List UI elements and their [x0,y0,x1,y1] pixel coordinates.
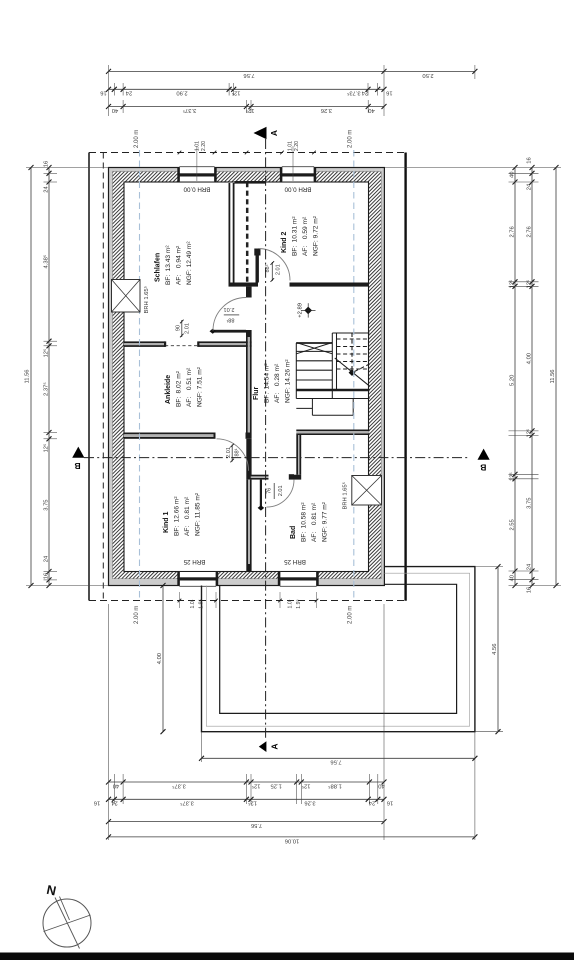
svg-text:11.56: 11.56 [25,369,31,383]
svg-text:2.00 m: 2.00 m [348,130,354,148]
svg-text:AF: 0.81 m²: AF: 0.81 m² [184,496,191,536]
blue roofline 2.00m left [139,150,141,601]
svg-text:16: 16 [387,800,393,806]
svg-text:1.88⁵: 1.88⁵ [328,782,342,789]
svg-text:B: B [480,463,486,473]
right dim chain total 11.56 [555,168,557,586]
door Bad diamond [258,505,265,510]
svg-text:16: 16 [527,587,533,593]
svg-text:3.75: 3.75 [527,498,533,509]
svg-text:12⁵: 12⁵ [43,443,50,452]
svg-text:24: 24 [527,183,533,190]
svg-text:BF: 13.43 m²: BF: 13.43 m² [165,245,172,285]
svg-text:40: 40 [509,172,515,178]
passage jamb marks [164,341,166,347]
svg-text:1.0¹: 1.0¹ [287,599,293,608]
svg-text:1.9⁵: 1.9⁵ [296,599,302,608]
dashed beam line over Flur [246,182,249,283]
svg-text:16: 16 [44,161,50,167]
svg-text:24: 24 [125,90,132,96]
balcony inner outline [220,584,457,713]
svg-text:BRH 1.65⁵: BRH 1.65⁵ [342,481,349,509]
svg-text:4.56: 4.56 [492,644,498,655]
svg-text:2.20: 2.20 [201,141,207,151]
svg-text:16: 16 [527,157,533,163]
svg-text:2.37⁵: 2.37⁵ [43,382,50,396]
wall Flur/Schlafen below door [246,337,248,433]
stair upper flight outline [332,332,369,334]
section marker B left [72,447,84,458]
stair cross over top treads [296,343,332,354]
wall outline inner [124,182,369,572]
lintel over niche [235,181,266,184]
svg-text:12⁵: 12⁵ [301,782,310,789]
section marker B right [478,449,490,460]
door Schlafen diamond [210,329,216,334]
svg-text:24: 24 [43,555,49,562]
roof eaves solid line left [88,153,90,601]
svg-text:12⁵: 12⁵ [247,800,256,807]
stair walkline diamond [349,369,356,376]
stair wellhole lines [331,333,333,399]
svg-text:1.01: 1.01 [194,141,200,151]
svg-text:40: 40 [112,107,118,113]
svg-text:NGF: 11.85 m²: NGF: 11.85 m² [195,492,202,536]
wall Kind1/Bad lower [246,480,248,564]
section line A vertical [265,139,267,741]
svg-text:AF: 0.81 m²: AF: 0.81 m² [311,502,318,542]
stair second line [296,398,369,400]
door Kind2 arc [258,249,290,281]
level mark +2.89 [304,307,312,315]
bottom dim row 1 (balcony 7.56) [202,757,475,759]
svg-text:BRH 25: BRH 25 [284,558,306,565]
stair extra tread [296,407,312,409]
svg-text:3.37⁵: 3.37⁵ [182,107,196,114]
svg-text:2.76: 2.76 [510,226,516,237]
svg-text:1.25: 1.25 [271,782,282,788]
svg-text:Schlafen: Schlafen [155,253,162,282]
window bottom wall Bad [280,572,317,587]
svg-text:7.56: 7.56 [243,72,254,78]
svg-text:2.00 m: 2.00 m [134,606,140,624]
svg-text:12⁵: 12⁵ [508,279,515,288]
svg-text:12⁵: 12⁵ [251,782,260,789]
svg-text:88¹: 88¹ [226,316,234,322]
svg-text:7.56: 7.56 [251,822,262,828]
section marker A top [254,127,267,139]
svg-text:NGF: 14.26 m²: NGF: 14.26 m² [285,359,292,403]
wall Flur/Bad right seg [294,475,301,480]
niche wall double line right face [233,183,235,283]
svg-text:12⁵: 12⁵ [508,472,515,481]
wall Flur/Schlafen below door jamb [246,330,252,337]
top dim row 1 (7.56 / 2.50) [109,70,475,72]
svg-text:BF: 8.02 m²: BF: 8.02 m² [176,370,183,407]
svg-text:BRH 25: BRH 25 [183,558,205,565]
svg-text:10.06: 10.06 [285,837,300,843]
svg-text:16: 16 [386,90,392,96]
door Kind2 leaf [256,249,259,283]
wall Flur/Kind2 horizontal right seg [290,283,369,287]
svg-text:2.01: 2.01 [226,447,232,458]
section line B horizontal [84,457,470,459]
svg-text:Kind 1: Kind 1 [163,512,170,533]
svg-text:A: A [269,130,279,136]
svg-text:BRH 0.00: BRH 0.00 [183,186,210,193]
wall Flur/Kind2 horizontal left seg [229,283,259,287]
chimney left BRH 1.65 [112,280,141,313]
section marker A bottom [259,741,267,752]
svg-text:2.00 m: 2.00 m [134,130,140,148]
svg-text:AF: 0.51 m²: AF: 0.51 m² [186,367,193,407]
door Schlafen arc [213,298,246,331]
wall Schlafen/Ankleide left part [124,341,165,343]
svg-text:16: 16 [94,800,100,806]
svg-text:5.20: 5.20 [510,375,516,386]
svg-text:90: 90 [175,325,181,331]
wall Flur/Schlafen upper piece [246,287,252,298]
svg-text:1.0¹: 1.0¹ [190,599,196,608]
svg-text:NGF: 12.49 m²: NGF: 12.49 m² [186,241,193,285]
svg-text:3.73⁵: 3.73⁵ [346,90,360,97]
svg-text:1.01: 1.01 [287,141,293,151]
balcony dim 4.00 left [162,586,164,732]
svg-text:NGF: 7.51 m²: NGF: 7.51 m² [197,366,204,407]
svg-text:BF: 14.54 m²: BF: 14.54 m² [264,363,271,403]
svg-text:Ankleide: Ankleide [165,375,172,404]
svg-text:88¹: 88¹ [235,448,241,456]
bottom dim row 2 [109,781,385,783]
svg-text:AF: 0.28 m²: AF: 0.28 m² [274,363,281,403]
svg-text:AF: 0.94 m²: AF: 0.94 m² [176,245,183,285]
svg-text:2.50: 2.50 [422,72,433,78]
svg-text:3.26: 3.26 [321,107,332,113]
wall stipple/hatch separator lines [113,172,382,579]
svg-text:7.56: 7.56 [330,759,341,765]
svg-text:2.00 m: 2.00 m [348,606,354,624]
stair lower step box [311,399,313,416]
svg-text:BRH 1.65⁵: BRH 1.65⁵ [143,285,150,313]
svg-text:Bad: Bad [290,526,297,539]
compass rose [43,899,91,947]
bottom dim row 5 (10.06) [109,836,475,838]
svg-text:+2.89: +2.89 [298,303,304,318]
svg-text:2.20: 2.20 [294,141,300,151]
svg-text:24: 24 [368,800,375,806]
left dim chain detail [48,168,50,586]
chimney right BRH 1.65 [352,476,382,506]
svg-text:BRH 0.00: BRH 0.00 [284,186,311,193]
wall Ankleide/Kind1 [124,433,214,435]
left extension lines [26,167,109,169]
svg-text:Flur: Flur [253,387,260,400]
svg-text:40: 40 [113,782,119,788]
stair diagonal dashed [355,364,370,372]
top dim row 3 [109,106,385,108]
svg-text:40: 40 [368,107,374,113]
right extension lines [385,167,561,169]
threshold dashes Ankleide passage [165,345,199,347]
door Bad leaf [260,480,262,508]
svg-text:1.9⁵: 1.9⁵ [198,599,204,608]
outer wall band: stipple (insulation) frame [109,168,113,586]
svg-text:Kind 2: Kind 2 [281,232,288,253]
svg-text:2.90: 2.90 [176,90,187,96]
svg-text:12⁵: 12⁵ [525,279,532,288]
svg-text:2.76: 2.76 [527,226,533,237]
right dim chain 2 [531,168,533,586]
stair upper flight dashed treads [337,338,370,340]
bottom extension lines [201,732,203,762]
stair diagonal solid [335,358,370,386]
svg-text:12⁵: 12⁵ [43,348,50,357]
wall outline outer [109,168,385,586]
right dim chain 1 [514,168,516,586]
wall Flur/Bad left seg [251,475,269,477]
wall Schlafen/Ankleide right part [199,341,252,343]
top extension lines [108,65,110,116]
svg-text:16: 16 [100,90,106,96]
wall vertical stair/Bad connector [296,435,298,475]
svg-text:4.00: 4.00 [527,353,533,364]
balcony dim 4.56 [497,567,499,732]
roof overhang dashed vertical left [102,153,104,601]
stair left flight treads [296,342,332,344]
wall Kind1/Bad upper (door leaf) [246,439,251,480]
svg-text:11.56: 11.56 [550,369,556,383]
niche wall double line left face [229,183,231,283]
svg-text:2.01: 2.01 [278,485,284,496]
svg-text:BF: 10.31 m²: BF: 10.31 m² [292,216,299,256]
svg-text:NGF: 9.77 m²: NGF: 9.77 m² [322,501,329,542]
outer wall band: diagonal hatch frame [113,172,125,579]
roof overhang dashed bottom [89,600,406,602]
svg-text:3.26: 3.26 [304,800,315,806]
left dim chain total 11.56 [30,168,32,586]
svg-text:AF: 0.59 m²: AF: 0.59 m² [302,216,309,256]
svg-text:BF: 10.58 m²: BF: 10.58 m² [301,502,308,542]
svg-text:4.38⁵: 4.38⁵ [43,254,50,268]
svg-text:40: 40 [509,575,515,581]
wall Flur bottom (stair) [296,430,369,432]
svg-text:2.55: 2.55 [509,519,515,530]
small dims below bottom windows [179,592,181,608]
svg-text:3.75: 3.75 [44,499,50,510]
window bottom wall Kind 1 [180,572,217,587]
svg-text:4.00: 4.00 [157,653,163,664]
svg-text:24: 24 [527,563,533,570]
window top wall Schlafen [180,167,215,182]
bottom dim row 4 (7.56) [109,821,385,823]
svg-text:12⁵: 12⁵ [231,90,240,97]
bottom dim row 3 [109,798,385,800]
top dim row 2 [109,88,385,90]
roof eaves solid line right [404,153,406,601]
svg-text:B: B [74,461,80,471]
svg-text:24: 24 [361,90,368,96]
svg-text:BF: 12.66 m²: BF: 12.66 m² [174,496,181,536]
roof overhang dashed top [89,152,406,154]
svg-text:2.01: 2.01 [185,323,191,334]
blue roofline 2.00m right [353,150,355,601]
svg-text:A: A [269,744,279,750]
door Schlafen leaf [213,330,246,333]
small dims above top windows [196,146,198,181]
svg-text:24: 24 [44,186,50,193]
balcony thin offset line [206,573,469,726]
svg-text:76: 76 [266,488,272,494]
svg-text:3.37⁵: 3.37⁵ [172,782,186,789]
stair bottom thick line [296,389,369,391]
stair walkline dashed vertical [351,333,353,370]
window top wall Kind 2 [282,167,314,182]
svg-text:NGF: 9.72 m²: NGF: 9.72 m² [313,215,320,256]
svg-text:12⁵: 12⁵ [526,428,533,437]
svg-text:2.01: 2.01 [224,306,235,312]
door Bad arc [267,480,295,508]
wall piece right of Kind1 door [246,433,252,439]
door Kind1 arc [217,439,249,471]
svg-text:3.37⁵: 3.37⁵ [180,800,194,807]
svg-text:16: 16 [43,573,49,579]
door Kind1 jamb mark [214,433,216,439]
svg-text:2.01: 2.01 [275,264,281,275]
balcony outer outline [202,567,475,732]
door Bad stop jamb [289,474,294,479]
bottom black bar [0,953,574,960]
